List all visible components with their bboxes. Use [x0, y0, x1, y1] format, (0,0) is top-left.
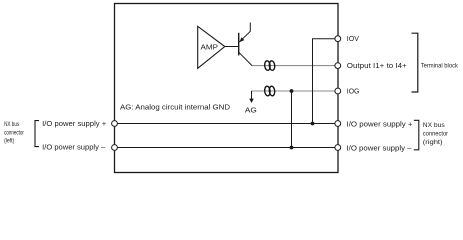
wire IOG to supply - vertical	[291, 91, 293, 148]
wire output I line (gray horizontal)	[252, 65, 335, 67]
svg-text:I/O power supply +: I/O power supply +	[347, 122, 413, 129]
inductor L1 on output line	[264, 61, 275, 71]
terminal circle output	[335, 63, 341, 69]
wire I/O power supply + line	[118, 123, 336, 125]
wire IOV stub to internal rail	[313, 39, 335, 124]
terminal circle left supply -	[112, 145, 118, 151]
bracket left NX bus connector	[35, 121, 39, 147]
terminal circle left supply +	[112, 121, 118, 127]
terminal circle right supply +	[335, 121, 341, 127]
svg-text:IOG: IOG	[347, 89, 360, 96]
svg-text:I/O power supply –: I/O power supply –	[42, 145, 105, 152]
svg-text:(left): (left)	[4, 137, 14, 144]
junction dot supply - line	[290, 146, 294, 150]
wire AMP output to base	[225, 46, 239, 48]
svg-text:AMP: AMP	[201, 43, 219, 52]
svg-text:I/O power supply +: I/O power supply +	[42, 121, 106, 128]
inductor L2 on IOG line	[264, 86, 275, 96]
svg-text:I/O power supply –: I/O power supply –	[347, 145, 412, 152]
label NX bus connector (right)	[423, 122, 449, 146]
svg-text:(right): (right)	[423, 139, 443, 146]
svg-text:Output I1+ to I4+: Output I1+ to I4+	[347, 63, 407, 70]
svg-text:connector: connector	[4, 129, 24, 136]
module outline box	[115, 4, 339, 173]
svg-text:IOV: IOV	[347, 36, 359, 43]
svg-text:NX bus: NX bus	[423, 122, 445, 129]
svg-text:NX bus: NX bus	[4, 121, 19, 128]
svg-text:AG: AG	[245, 108, 257, 115]
svg-text:AG: Analog circuit internal GN: AG: Analog circuit internal GND	[120, 105, 230, 112]
junction dot IOV rail to supply +	[311, 122, 315, 126]
ground AG arrow	[245, 91, 257, 115]
bracket terminal block	[412, 33, 418, 92]
op-amp AMP	[198, 26, 225, 68]
junction dot IOG line	[290, 89, 294, 93]
label NX bus connector (left)	[4, 121, 24, 144]
wire I/O power supply - line	[118, 147, 336, 149]
transistor Q1 (PNP)	[239, 23, 252, 66]
bracket right NX bus connector	[414, 120, 419, 150]
terminal circle IOV	[335, 36, 341, 42]
svg-text:connector: connector	[423, 130, 449, 137]
svg-text:Terminal block: Terminal block	[421, 63, 459, 70]
terminal circle IOG	[335, 88, 341, 94]
terminal circle right supply -	[335, 145, 341, 151]
wire IOG line (gray horizontal)	[252, 90, 335, 92]
